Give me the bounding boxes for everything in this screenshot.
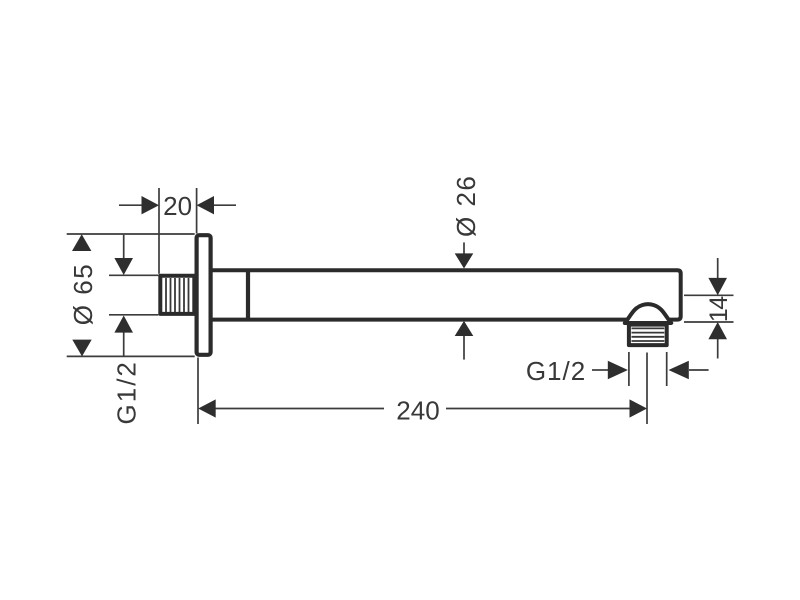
- svg-text:Ø 26: Ø 26: [451, 175, 481, 237]
- svg-text:20: 20: [163, 191, 192, 221]
- svg-text:Ø 65: Ø 65: [68, 263, 98, 325]
- svg-text:G1/2: G1/2: [112, 360, 142, 424]
- svg-text:G1/2: G1/2: [526, 356, 586, 386]
- svg-text:14: 14: [705, 296, 733, 322]
- svg-text:240: 240: [396, 395, 439, 425]
